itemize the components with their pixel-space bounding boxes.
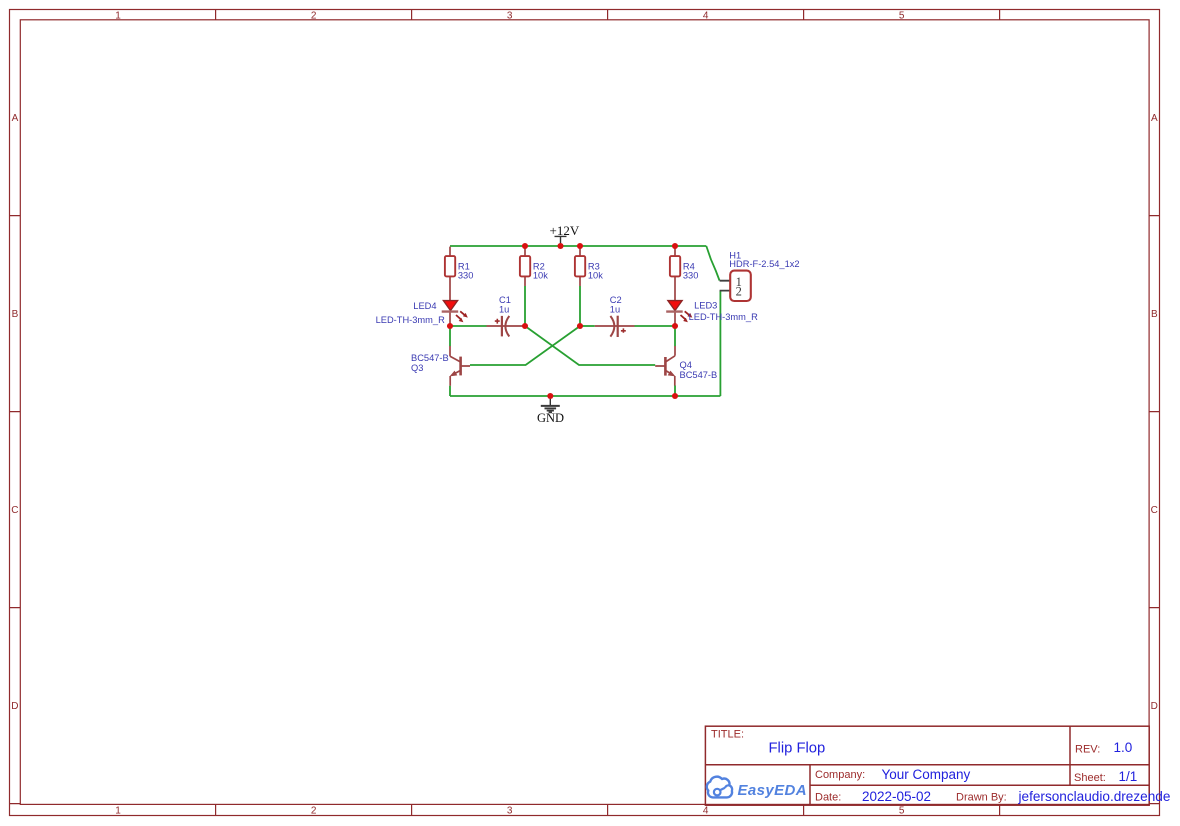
transistor Q4 — [655, 346, 717, 386]
svg-text:D: D — [1151, 701, 1158, 712]
svg-text:1: 1 — [115, 10, 121, 21]
wire curved to H1 pin 1 — [706, 246, 719, 281]
svg-text:2022-05-02: 2022-05-02 — [862, 789, 931, 804]
svg-text:B: B — [1151, 309, 1158, 320]
svg-text:Flip Flop: Flip Flop — [769, 740, 826, 756]
svg-text:10k: 10k — [588, 271, 603, 281]
frame column labels top — [115, 10, 905, 21]
resistor R1 — [445, 247, 474, 301]
frame row ticks right — [1149, 216, 1159, 804]
wire bottom ground rail — [450, 395, 720, 397]
wire R3 node to C2 — [580, 325, 595, 327]
capacitor C1 — [487, 295, 524, 336]
svg-text:HDR-F-2.54_1x2: HDR-F-2.54_1x2 — [729, 259, 799, 269]
svg-text:3: 3 — [507, 805, 513, 816]
frame column ticks top — [216, 10, 1000, 20]
svg-text:+12V: +12V — [550, 223, 580, 238]
wire R3 bottom to node — [579, 286, 581, 326]
svg-text:2: 2 — [736, 285, 742, 299]
svg-text:2: 2 — [311, 805, 317, 816]
svg-text:Your Company: Your Company — [882, 767, 971, 782]
svg-text:5: 5 — [899, 10, 905, 21]
svg-text:BC547-B: BC547-B — [680, 370, 718, 380]
svg-text:1: 1 — [115, 805, 121, 816]
title block texts row 3 — [815, 789, 1170, 804]
wire top power rail — [450, 245, 706, 247]
transistor Q3 — [411, 346, 470, 386]
svg-text:Company:: Company: — [815, 769, 865, 781]
resistor R4 — [670, 247, 699, 301]
frame row ticks left — [10, 216, 21, 804]
svg-text:4: 4 — [703, 10, 709, 21]
svg-text:jefersonclaudio.drezende: jefersonclaudio.drezende — [1018, 789, 1171, 804]
wire Q3 emitter to ground rail — [449, 386, 451, 396]
svg-text:330: 330 — [683, 271, 699, 281]
LED LED3 — [666, 301, 758, 324]
junction node dots — [447, 243, 678, 399]
resistor R3 — [575, 247, 603, 286]
svg-text:Sheet:: Sheet: — [1074, 772, 1106, 784]
svg-text:EasyEDA: EasyEDA — [738, 782, 808, 799]
svg-text:330: 330 — [458, 271, 474, 281]
svg-text:D: D — [11, 701, 18, 712]
svg-text:2: 2 — [311, 10, 317, 21]
wire Q4 emitter to ground rail — [674, 386, 676, 397]
wire LED3 node to Q4 collector — [674, 326, 676, 346]
resistor R2 — [520, 247, 548, 286]
svg-text:GND: GND — [537, 411, 564, 425]
wire LED4 node to C1 — [450, 325, 487, 327]
wire R2 bottom to node — [524, 286, 526, 326]
frame column labels bottom — [115, 805, 905, 816]
capacitor C2 — [595, 295, 635, 337]
wire C2 to LED3 node — [635, 325, 676, 327]
svg-text:LED3: LED3 — [694, 301, 717, 311]
svg-text:5: 5 — [899, 805, 905, 816]
svg-text:LED-TH-3mm_R: LED-TH-3mm_R — [376, 315, 445, 325]
svg-text:C2: C2 — [610, 295, 622, 305]
EasyEDA logo — [707, 777, 807, 799]
svg-text:C: C — [1151, 505, 1158, 516]
svg-text:LED-TH-3mm_R: LED-TH-3mm_R — [689, 312, 758, 322]
title block grid — [705, 726, 1149, 805]
svg-text:3: 3 — [507, 10, 513, 21]
svg-text:C1: C1 — [499, 295, 511, 305]
svg-text:Q4: Q4 — [680, 360, 692, 370]
svg-text:A: A — [12, 113, 19, 124]
power flag +12V — [550, 223, 580, 246]
ground symbol GND — [537, 396, 564, 425]
svg-text:LED4: LED4 — [413, 301, 436, 311]
wire H1 pin 2 to ground rail — [719, 291, 721, 396]
svg-text:A: A — [1151, 113, 1158, 124]
svg-text:10k: 10k — [533, 271, 548, 281]
frame row labels left — [11, 113, 18, 712]
svg-text:1u: 1u — [499, 305, 509, 315]
svg-text:1.0: 1.0 — [1114, 740, 1133, 755]
svg-text:REV:: REV: — [1075, 744, 1100, 756]
svg-text:Q3: Q3 — [411, 363, 423, 373]
title block texts row 2 — [815, 767, 1137, 784]
svg-text:Date:: Date: — [815, 792, 841, 804]
frame column ticks bottom — [216, 804, 1000, 815]
wire cross coupling R3 node to Q3 base — [470, 326, 580, 365]
frame row labels right — [1151, 113, 1158, 712]
connector H1 — [720, 250, 800, 301]
title block texts row 1 — [711, 729, 1132, 757]
svg-text:4: 4 — [703, 805, 709, 816]
svg-text:Drawn By:: Drawn By: — [956, 792, 1007, 804]
svg-text:1u: 1u — [610, 305, 620, 315]
wire cross coupling R2 node to Q4 base — [525, 326, 655, 365]
LED LED4 — [376, 301, 468, 325]
svg-text:C: C — [11, 505, 18, 516]
svg-text:B: B — [12, 309, 19, 320]
svg-text:1/1: 1/1 — [1119, 769, 1138, 784]
svg-text:TITLE:: TITLE: — [711, 729, 744, 741]
svg-text:BC547-B: BC547-B — [411, 353, 449, 363]
wire LED4 node to Q3 collector — [449, 326, 451, 346]
